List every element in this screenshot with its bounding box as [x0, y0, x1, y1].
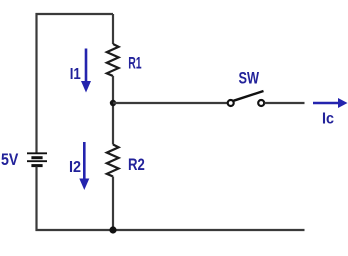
resistor R2	[107, 145, 119, 177]
wire bottom horizontal	[36, 229, 305, 231]
wire right branch top	[112, 14, 114, 44]
battery B1 5V	[27, 153, 47, 165]
wire switch to output	[265, 102, 305, 104]
svg-text:5V: 5V	[1, 151, 18, 169]
current arrow I2	[79, 142, 89, 190]
current arrow Ic	[313, 98, 348, 108]
switch SW	[228, 91, 265, 106]
wire top horizontal	[36, 13, 114, 15]
svg-text:Ic: Ic	[322, 111, 334, 128]
svg-text:I1: I1	[70, 66, 81, 83]
wire left vertical upper	[35, 13, 37, 153]
svg-text:SW: SW	[239, 70, 260, 88]
svg-text:I2: I2	[69, 159, 81, 176]
node junction B (bottom)	[109, 226, 116, 233]
node junction A	[110, 100, 116, 106]
current arrow I1	[81, 49, 91, 93]
wire left vertical lower	[35, 167, 37, 232]
wire node to switch	[113, 102, 227, 104]
wire right branch bottom	[112, 177, 114, 231]
wire mid vertical (R1 to R2)	[112, 76, 114, 145]
svg-text:R1: R1	[128, 55, 141, 73]
svg-text:R2: R2	[128, 156, 145, 174]
resistor R1	[107, 44, 119, 76]
